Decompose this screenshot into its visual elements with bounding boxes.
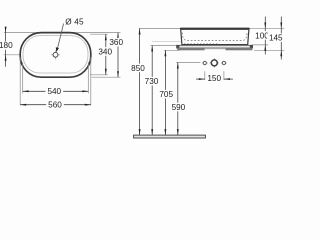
hidden interior bottom level line [152,40,181,42]
basin interior hidden bottom (dashed) [182,33,247,41]
extension line basin top (850/100/145) [139,28,181,30]
extension/centre line tap holes (590) [176,62,200,64]
washbasin inner rim (top view) [23,36,88,73]
bar right end cap [250,45,253,48]
inner-bottom extension line (340) [90,74,108,76]
top extension line (oval top / 180 / 360) [4,32,121,34]
tap hole big centre [210,62,219,64]
faucet hole Ø45 [53,52,58,57]
leader arrowhead at hole [56,47,59,52]
arrow down to oval top [5,27,7,33]
left inner extension line (540) [22,62,24,93]
label 145 [267,33,284,42]
bar left end cap [177,45,180,48]
right foot [226,48,253,50]
arrow up to centerline [5,55,7,61]
svg-text:145: 145 [269,34,283,43]
svg-text:590: 590 [172,103,186,112]
dimension 730 vertical line [151,46,153,136]
tap hole small left (side view plan) [202,62,208,64]
dimension 100 vertical line [264,17,266,55]
label 850 [129,64,147,73]
left foot [177,48,204,50]
label 705 [157,90,175,99]
dimension 150 right arrow [224,78,233,80]
right outer extension line (560) [90,57,92,105]
dimension 850 vertical line [139,29,141,136]
outer-bottom extension line (360) [92,76,121,78]
label 360 [108,38,125,47]
svg-text:540: 540 [47,87,61,96]
svg-text:730: 730 [145,77,159,86]
dimension 180 vertical line [5,27,7,42]
basin lower hidden edge (dashed) [184,42,219,44]
label 590 [170,103,188,112]
dimension 360 vertical line [117,33,119,78]
svg-text:340: 340 [98,47,112,56]
svg-text:180: 180 [0,41,13,50]
dimension 560 line [20,104,91,106]
inner-top extension line (340) [90,33,108,35]
mounting bar [177,45,253,48]
svg-text:150: 150 [207,74,221,83]
dimension 705 vertical line [164,50,166,135]
horizontal centerline of oval [4,54,53,56]
svg-text:360: 360 [109,38,123,47]
svg-text:100: 100 [255,31,269,40]
svg-text:560: 560 [48,101,62,110]
dimension 590 vertical line [177,63,179,136]
floor bar [134,135,206,138]
dimension 540 line [23,90,89,92]
label 730 [143,77,161,86]
faucet hole crosshair ticks [51,54,60,56]
svg-text:705: 705 [159,90,173,99]
dimension 150 left arrow [196,78,205,80]
basin top rim thick line [181,28,249,30]
extension line feet bottom (705/145) [164,49,180,51]
svg-text:Ø 45: Ø 45 [65,17,84,26]
label 100 [253,31,270,40]
label 340 [97,47,114,56]
left outer extension line (560) [19,57,21,105]
dimension 340 vertical line [105,34,107,75]
extension line bar top (730/100) [151,45,177,47]
svg-text:850: 850 [131,64,145,73]
dimension 145 vertical line [280,17,282,60]
basin body (side view) [181,29,249,44]
dimension 150 extension ticks [204,71,206,80]
right inner extension line (540) [87,62,89,93]
label 560 [46,101,64,109]
leader line from Ø45 label [57,24,64,51]
tap hole small right [221,62,227,64]
washbasin outer rim (top view, stadium oval) [20,33,91,78]
under-bar strip [177,48,252,49]
label 540 [46,87,64,95]
